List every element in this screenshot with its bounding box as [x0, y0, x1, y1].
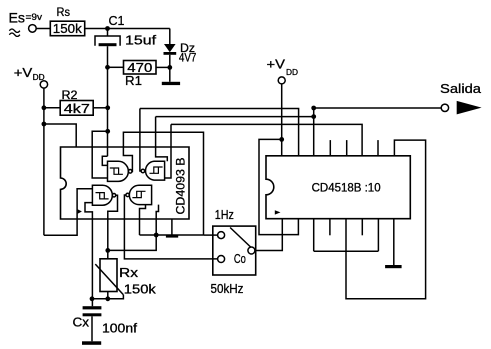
svg-text:DD: DD: [286, 68, 298, 77]
svg-text:+V: +V: [267, 57, 286, 72]
svg-text:Rx: Rx: [119, 265, 139, 280]
svg-text:Cx: Cx: [73, 315, 90, 330]
svg-text:C1: C1: [109, 13, 125, 28]
svg-text:DD: DD: [33, 73, 45, 82]
svg-text:CD4518B :10: CD4518B :10: [312, 181, 381, 195]
svg-text:15uf: 15uf: [125, 33, 156, 48]
svg-text:R2: R2: [62, 88, 78, 102]
svg-text:150k: 150k: [53, 21, 83, 36]
svg-text:=9v: =9v: [26, 12, 43, 22]
svg-text:150k: 150k: [124, 282, 157, 297]
svg-text:50kHz: 50kHz: [211, 281, 244, 296]
svg-text:R1: R1: [125, 73, 142, 88]
svg-text:100nf: 100nf: [102, 321, 137, 336]
svg-text:4k7: 4k7: [64, 101, 90, 116]
svg-text:Salida: Salida: [440, 81, 482, 96]
svg-text:Rs: Rs: [57, 5, 71, 19]
svg-text:4V7: 4V7: [179, 51, 197, 65]
svg-text:+V: +V: [14, 65, 33, 80]
svg-text:CD4093 B: CD4093 B: [174, 158, 188, 215]
svg-text:Es: Es: [9, 10, 26, 26]
svg-text:1Hz: 1Hz: [215, 207, 234, 222]
svg-text:Co: Co: [234, 251, 246, 266]
